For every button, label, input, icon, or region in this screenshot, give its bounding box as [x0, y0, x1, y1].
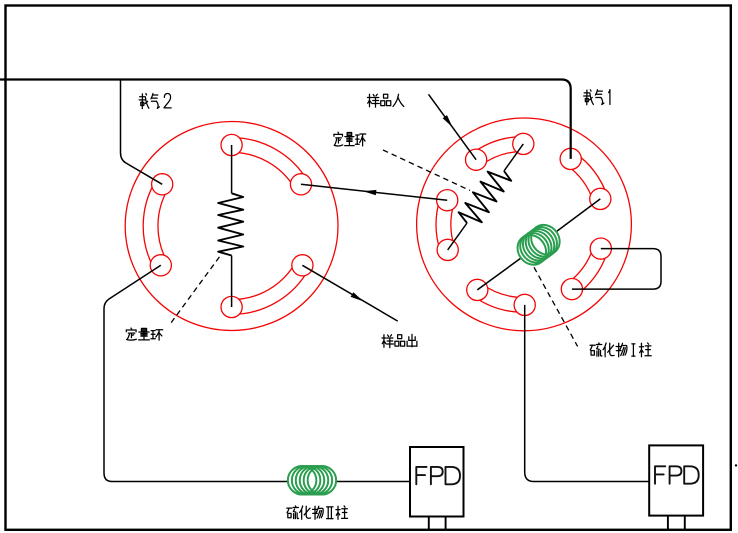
- valve V2 (6-port) port at -31deg: [290, 174, 311, 195]
- dashed leader to sulfide column I label: [534, 267, 578, 346]
- arrowhead sample-in: [443, 115, 453, 127]
- valve V1 (10-port) port at -90.5deg: [513, 133, 534, 154]
- valve V1 (10-port) port at -54.5deg: [560, 148, 581, 169]
- left FPD legs: [429, 517, 446, 530]
- valve V2 (6-port) port at 29deg: [292, 255, 313, 276]
- valve V2 (6-port) port at -90deg: [221, 134, 242, 155]
- valve V1 (10-port) port at 53.5deg: [561, 279, 582, 300]
- valve V1 (10-port) channel slot 89.5to125.5: [482, 284, 525, 298]
- valve V2 (6-port) port at -149deg: [152, 174, 173, 195]
- wire sulfide column I to valve V1 port: [477, 258, 521, 290]
- valve V1 (10-port) rotor circle: [417, 118, 632, 331]
- sample loop spring of valve V1 (diagonal): [504, 144, 523, 171]
- label sample out (yangpinchu): [382, 334, 417, 347]
- valve V1 (10-port) port at 233.5deg: [466, 149, 487, 170]
- right FPD detector box: [649, 445, 703, 515]
- label sulfide column I: [590, 343, 651, 357]
- arrowhead sample-out: [351, 292, 364, 301]
- wire external U-loop on right of valve V1: [572, 249, 661, 290]
- wire carrier-gas main line top: [0, 80, 571, 159]
- valve V1 (10-port) channel slot 161.5to197.5: [451, 202, 455, 247]
- left FPD detector box: [410, 447, 464, 517]
- label loop of valve V2 (dinglianghuan): [126, 328, 162, 340]
- valve V1 (10-port) port at 161.5deg: [437, 239, 458, 260]
- valve V1 (10-port) channel slot 17.5to53.5: [568, 246, 594, 283]
- dashed leader to loop label (valve V2): [170, 257, 220, 325]
- valve V1 (10-port) port at 197.5deg: [437, 190, 458, 211]
- sulfide column I (green coil): [512, 229, 552, 270]
- label carrier gas 1 (zaiqi1): [584, 90, 610, 105]
- wire sample-out from valve V2 lower-right port: [302, 265, 397, 321]
- label loop of valve V1 (dinglianghuan): [334, 132, 366, 146]
- wire sample-in into valve V1: [429, 94, 477, 159]
- valve V1 (10-port) port at 125.5deg: [467, 279, 488, 300]
- arrowhead into valve V2 upper-right port: [363, 190, 376, 195]
- valve V1 (10-port) channel slot -54.5to-18.5: [566, 165, 593, 201]
- label sulfide column II: [287, 506, 348, 519]
- valve V2 (6-port) rotor circle: [125, 122, 338, 331]
- valve V1 (10-port) channel slot 233.5to269.5: [481, 151, 524, 165]
- wire carrier-gas-2 branch to valve V2: [121, 80, 163, 185]
- wire valve V1 bottom port to right FPD: [525, 305, 650, 482]
- valve V2 (6-port) port at 151deg: [150, 255, 171, 276]
- valve V1 (10-port) port at 89.5deg: [514, 294, 535, 315]
- label sample in (yangpinru): [368, 94, 404, 107]
- valve V1 (10-port) port at -18.5deg: [590, 188, 611, 209]
- valve V2 (6-port) channel slot -90to-31: [232, 152, 295, 188]
- wire valve V2 lower-left port to left FPD via column II: [104, 265, 288, 481]
- valve V2 (6-port) channel slot 29to90: [232, 262, 296, 300]
- wire valve V1 port to sulfide column I: [557, 199, 601, 232]
- wire valve V1 left port to valve V2 upper-right port: [301, 184, 447, 200]
- stray dot on right border: [735, 464, 737, 466]
- label carrier gas 2 (zaiqi2): [139, 94, 171, 109]
- sample loop spring of valve V2 (vertical): [231, 145, 233, 193]
- right FPD legs: [668, 516, 685, 530]
- wire column II to left FPD: [336, 481, 410, 483]
- sulfide column II (green coil): [288, 466, 317, 495]
- valve V2 (6-port) port at 90deg: [221, 296, 242, 317]
- valve V2 (6-port) channel slot 151to211: [158, 188, 169, 262]
- valve V1 (10-port) port at 17.5deg: [590, 238, 611, 259]
- dashed leader to loop label (valve V1): [383, 150, 470, 191]
